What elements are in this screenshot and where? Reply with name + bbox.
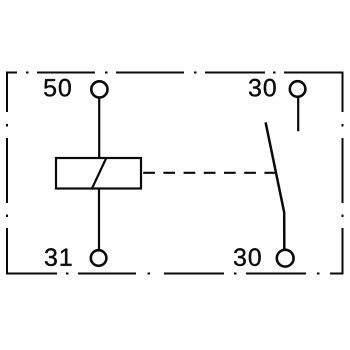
mechanical link (dashed) from coil to switch arm <box>143 172 275 174</box>
label 50 <box>44 79 71 97</box>
relay coil K1 <box>56 158 141 189</box>
label 30 (bottom) <box>234 248 261 266</box>
relay enclosure dash-dot border: bottom side <box>7 273 343 275</box>
relay enclosure dash-dot border: top side <box>7 72 343 74</box>
terminal 31 <box>91 250 107 266</box>
terminal 30 top <box>290 81 306 97</box>
relay enclosure dash-dot border: right side <box>342 72 344 275</box>
relay enclosure dash-dot border: left side <box>6 72 8 275</box>
label 31 <box>45 248 72 266</box>
label 30 (top) <box>249 79 276 97</box>
wire: coil bottom to terminal 31 <box>98 189 100 249</box>
wire: terminal 50 to coil top <box>98 98 100 157</box>
terminal 50 <box>91 81 107 97</box>
switch contact arm <box>266 122 285 249</box>
coil diagonal stroke <box>92 158 107 190</box>
wire: terminal 30 top fixed contact stub <box>297 98 299 131</box>
terminal 30 bottom <box>277 250 294 267</box>
